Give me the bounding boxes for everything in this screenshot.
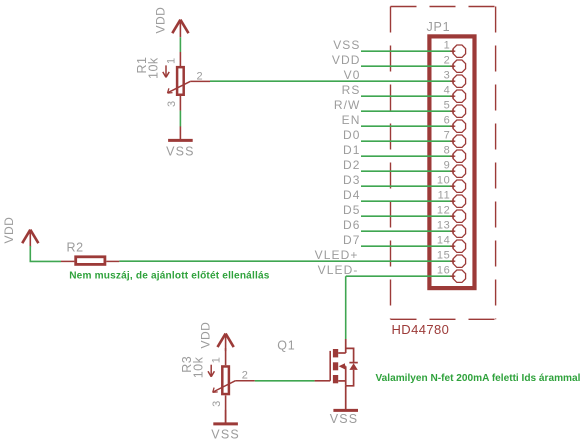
svg-text:15: 15 [437,250,450,262]
svg-text:Nem muszáj, de ajánlott előtét: Nem muszáj, de ajánlott előtét ellenállá… [69,270,270,281]
svg-text:Q1: Q1 [277,339,295,353]
svg-text:D0: D0 [343,128,361,142]
svg-text:1: 1 [165,58,177,64]
svg-text:VSS: VSS [330,412,359,426]
svg-text:4: 4 [444,85,451,97]
svg-text:D1: D1 [343,143,361,157]
svg-text:D6: D6 [343,218,361,232]
svg-text:D7: D7 [343,233,361,247]
svg-text:10: 10 [437,175,450,187]
svg-text:VSS: VSS [166,144,195,158]
svg-text:2: 2 [242,370,248,382]
svg-text:VDD: VDD [199,322,213,349]
svg-text:JP1: JP1 [427,20,451,34]
svg-text:R/W: R/W [334,98,361,112]
svg-text:R2: R2 [67,241,84,255]
svg-text:7: 7 [444,130,451,142]
svg-text:11: 11 [438,190,451,202]
svg-text:D3: D3 [343,173,361,187]
svg-text:RS: RS [342,83,361,97]
svg-text:V0: V0 [344,68,361,82]
svg-text:3: 3 [444,70,451,82]
svg-text:Valamilyen N-fet 200mA feletti: Valamilyen N-fet 200mA feletti Ids áramm… [376,373,581,384]
svg-text:8: 8 [444,145,451,157]
svg-text:2: 2 [444,55,451,67]
svg-text:VDD: VDD [2,217,16,244]
svg-text:D5: D5 [343,203,361,217]
svg-text:10k: 10k [192,356,206,378]
svg-text:HD44780: HD44780 [392,322,450,337]
svg-text:EN: EN [342,113,361,127]
svg-text:5: 5 [444,100,451,112]
svg-text:VSS: VSS [211,427,240,441]
svg-text:D2: D2 [343,158,361,172]
svg-text:VLED+: VLED+ [315,248,359,262]
svg-text:VLED-: VLED- [318,263,359,277]
svg-text:12: 12 [437,205,450,217]
svg-text:10k: 10k [147,57,161,79]
svg-text:2: 2 [197,70,203,82]
svg-text:VDD: VDD [332,53,361,67]
svg-text:VDD: VDD [154,7,168,34]
svg-text:D4: D4 [343,188,361,202]
svg-text:1: 1 [444,40,451,52]
svg-text:VSS: VSS [333,38,360,52]
svg-text:14: 14 [437,235,450,247]
svg-text:13: 13 [437,220,450,232]
svg-text:3: 3 [166,101,178,107]
svg-text:6: 6 [444,115,451,127]
svg-text:1: 1 [211,357,223,363]
svg-text:3: 3 [211,401,223,407]
svg-text:16: 16 [437,265,450,277]
svg-text:9: 9 [444,160,451,172]
